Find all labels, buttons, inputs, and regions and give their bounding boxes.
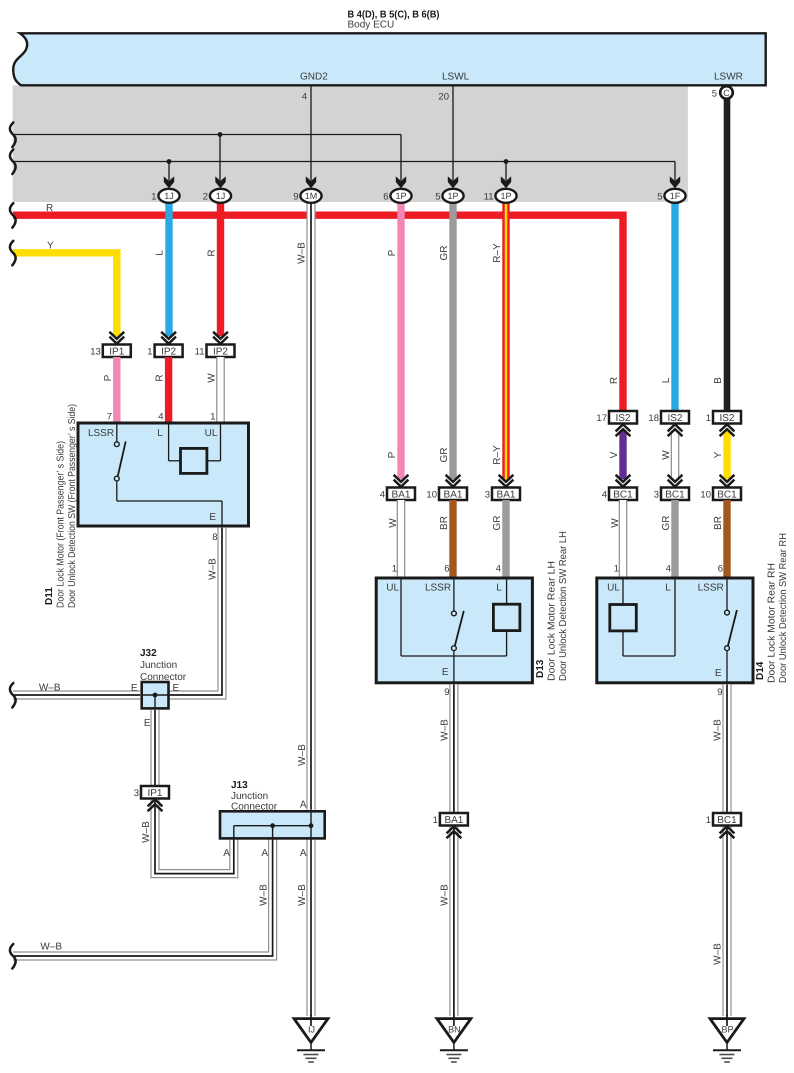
- svg-text:W–B: W–B: [713, 719, 724, 741]
- svg-text:1P: 1P: [447, 191, 458, 201]
- svg-text:1F: 1F: [670, 191, 681, 201]
- svg-text:1M: 1M: [305, 191, 318, 201]
- svg-text:LSSR: LSSR: [698, 583, 724, 594]
- svg-text:D14: D14: [755, 661, 766, 680]
- svg-text:4: 4: [380, 489, 385, 500]
- svg-text:IP2: IP2: [213, 347, 228, 358]
- svg-text:W: W: [610, 518, 621, 528]
- svg-text:C: C: [723, 88, 730, 98]
- svg-text:IP2: IP2: [161, 347, 176, 358]
- svg-text:E: E: [144, 718, 151, 729]
- svg-text:1: 1: [614, 564, 619, 575]
- svg-text:11: 11: [484, 191, 494, 202]
- svg-text:4: 4: [158, 412, 163, 423]
- svg-text:Connector: Connector: [140, 672, 187, 683]
- svg-text:L: L: [665, 583, 671, 594]
- svg-text:A: A: [300, 800, 307, 811]
- svg-text:9: 9: [293, 191, 298, 202]
- svg-text:1: 1: [706, 413, 711, 424]
- svg-text:IP1: IP1: [109, 347, 124, 358]
- svg-text:UL: UL: [386, 583, 399, 594]
- svg-text:L: L: [496, 583, 502, 594]
- svg-text:1: 1: [210, 412, 215, 423]
- svg-text:W–B: W–B: [40, 942, 62, 953]
- svg-text:UL: UL: [607, 583, 620, 594]
- svg-text:BA1: BA1: [444, 815, 463, 826]
- svg-text:Y: Y: [713, 451, 724, 458]
- svg-text:3: 3: [654, 489, 659, 500]
- svg-text:4: 4: [666, 564, 671, 575]
- svg-text:R: R: [46, 203, 53, 214]
- svg-text:BN: BN: [448, 1025, 461, 1035]
- svg-text:13: 13: [90, 346, 101, 357]
- svg-text:Door Unlock Detection SW Rear: Door Unlock Detection SW Rear RH: [778, 533, 789, 683]
- svg-text:W–B: W–B: [440, 884, 451, 906]
- svg-text:BC1: BC1: [717, 490, 737, 501]
- svg-text:E: E: [442, 667, 449, 678]
- svg-text:IJ: IJ: [308, 1025, 315, 1035]
- svg-text:B: B: [713, 377, 724, 384]
- svg-text:IP1: IP1: [147, 788, 162, 799]
- svg-text:V: V: [609, 451, 620, 458]
- svg-text:R: R: [207, 249, 218, 256]
- svg-text:IS2: IS2: [667, 413, 682, 424]
- svg-text:LSSR: LSSR: [88, 428, 114, 439]
- svg-text:5: 5: [712, 89, 717, 100]
- svg-text:5: 5: [657, 191, 662, 202]
- svg-text:1: 1: [147, 346, 152, 357]
- svg-text:9: 9: [717, 687, 722, 698]
- svg-text:P: P: [387, 451, 398, 458]
- svg-text:1P: 1P: [500, 191, 511, 201]
- svg-text:L: L: [157, 428, 163, 439]
- svg-text:5: 5: [435, 191, 440, 202]
- svg-text:Y: Y: [47, 241, 54, 252]
- svg-text:J13: J13: [231, 780, 248, 791]
- svg-text:Door Lock Motor Rear LH: Door Lock Motor Rear LH: [547, 561, 558, 681]
- svg-text:BC1: BC1: [717, 815, 737, 826]
- svg-text:W: W: [388, 518, 399, 528]
- svg-text:8: 8: [212, 532, 217, 543]
- svg-text:GND2: GND2: [300, 72, 328, 83]
- svg-text:E: E: [209, 512, 216, 523]
- svg-text:BC1: BC1: [665, 490, 685, 501]
- svg-text:P: P: [387, 249, 398, 256]
- svg-text:GR: GR: [661, 516, 672, 531]
- svg-text:Connector: Connector: [231, 802, 278, 813]
- svg-text:1: 1: [706, 815, 711, 826]
- svg-text:4: 4: [496, 564, 501, 575]
- svg-text:7: 7: [107, 412, 112, 423]
- svg-text:W: W: [207, 373, 218, 383]
- svg-text:1J: 1J: [164, 191, 174, 201]
- svg-text:D13: D13: [535, 659, 546, 678]
- svg-text:BP: BP: [721, 1025, 733, 1035]
- svg-text:Door Unlock Detection SW (Fron: Door Unlock Detection SW (Front Passenge…: [67, 404, 78, 608]
- svg-text:4: 4: [602, 489, 607, 500]
- svg-text:W–B: W–B: [440, 719, 451, 741]
- svg-text:E: E: [131, 683, 138, 694]
- svg-text:BA1: BA1: [444, 490, 463, 501]
- svg-text:W–B: W–B: [208, 558, 219, 580]
- svg-text:W–B: W–B: [297, 242, 308, 264]
- svg-text:E: E: [173, 683, 180, 694]
- svg-text:W–B: W–B: [141, 821, 152, 843]
- svg-text:R: R: [609, 377, 620, 384]
- svg-text:Door Lock Motor Rear RH: Door Lock Motor Rear RH: [767, 563, 778, 683]
- svg-text:4: 4: [302, 92, 307, 103]
- svg-text:R–Y: R–Y: [492, 243, 503, 263]
- svg-text:11: 11: [195, 346, 205, 357]
- svg-text:Door Unlock Detection SW Rear: Door Unlock Detection SW Rear LH: [558, 531, 569, 681]
- svg-text:1: 1: [151, 191, 156, 202]
- svg-text:18: 18: [648, 413, 659, 424]
- svg-text:P: P: [103, 374, 114, 381]
- svg-text:Junction: Junction: [231, 791, 268, 802]
- svg-text:6: 6: [383, 191, 388, 202]
- svg-text:10: 10: [426, 489, 437, 500]
- svg-text:17: 17: [596, 413, 607, 424]
- svg-text:LSSR: LSSR: [425, 583, 451, 594]
- svg-text:GR: GR: [439, 448, 450, 463]
- svg-text:Body ECU: Body ECU: [348, 20, 395, 31]
- svg-text:W–B: W–B: [39, 683, 61, 694]
- svg-text:Junction: Junction: [140, 660, 177, 671]
- svg-text:A: A: [300, 848, 307, 859]
- svg-text:LSWL: LSWL: [442, 72, 470, 83]
- svg-text:BR: BR: [713, 516, 724, 530]
- svg-text:BA1: BA1: [392, 490, 411, 501]
- svg-text:L: L: [155, 250, 166, 256]
- svg-text:6: 6: [718, 564, 723, 575]
- svg-text:IS2: IS2: [719, 413, 734, 424]
- svg-text:1: 1: [433, 815, 438, 826]
- svg-text:J32: J32: [140, 648, 157, 659]
- svg-text:W–B: W–B: [259, 884, 270, 906]
- svg-text:3: 3: [485, 489, 490, 500]
- svg-text:LSWR: LSWR: [714, 72, 743, 83]
- svg-text:A: A: [223, 848, 230, 859]
- svg-text:W: W: [661, 450, 672, 460]
- svg-text:UL: UL: [205, 428, 218, 439]
- svg-text:IS2: IS2: [615, 413, 630, 424]
- svg-text:W–B: W–B: [297, 744, 308, 766]
- svg-text:10: 10: [700, 489, 711, 500]
- svg-text:6: 6: [444, 564, 449, 575]
- svg-text:D11: D11: [44, 587, 55, 605]
- svg-text:2: 2: [203, 191, 208, 202]
- svg-text:1J: 1J: [216, 191, 226, 201]
- svg-text:BR: BR: [439, 516, 450, 530]
- svg-text:9: 9: [444, 687, 449, 698]
- svg-text:R–Y: R–Y: [492, 445, 503, 465]
- svg-text:W–B: W–B: [713, 943, 724, 965]
- svg-text:BA1: BA1: [497, 490, 516, 501]
- svg-text:E: E: [715, 668, 722, 679]
- svg-text:GR: GR: [439, 246, 450, 261]
- svg-text:L: L: [661, 377, 672, 383]
- svg-text:Door Lock Motor (Front Passeng: Door Lock Motor (Front Passenger’ s Side…: [56, 441, 67, 608]
- svg-text:R: R: [155, 374, 166, 381]
- svg-text:1: 1: [392, 564, 397, 575]
- svg-text:1P: 1P: [395, 191, 406, 201]
- svg-text:3: 3: [134, 788, 139, 799]
- svg-text:BC1: BC1: [613, 490, 633, 501]
- svg-text:20: 20: [438, 92, 449, 103]
- svg-text:GR: GR: [492, 516, 503, 531]
- svg-text:W–B: W–B: [297, 884, 308, 906]
- svg-text:A: A: [261, 848, 268, 859]
